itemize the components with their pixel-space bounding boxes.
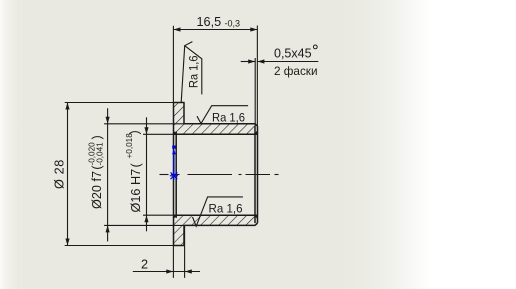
sleeve bottom outer line <box>184 224 255 226</box>
sleeve top outer line <box>184 123 255 125</box>
dimension Ø16 H7 <box>143 117 174 231</box>
arrowhead left of chamfer dim <box>248 59 255 63</box>
bore chamfer edge left <box>175 132 177 218</box>
flange bottom edge <box>173 245 185 247</box>
blue star <box>170 172 178 180</box>
arrowhead top of dim D16 <box>144 127 148 134</box>
arrowhead bottom of dim D20 <box>106 225 110 232</box>
flange right face upper <box>183 103 185 124</box>
svg-text:Ra 1,6: Ra 1,6 <box>186 55 200 88</box>
chamfer edge circle line right <box>254 126 256 223</box>
bore chamfer diagonal right top <box>255 132 258 135</box>
arrowhead right of dim 2 <box>185 269 192 273</box>
arrowhead top of dim D28 <box>65 103 69 110</box>
svg-text:Ra 1,6: Ra 1,6 <box>209 202 243 216</box>
chamfer diagonal bottom right <box>255 223 258 225</box>
dimension 0,5x45 / 2 фаски <box>241 58 319 126</box>
svg-text:-0,3: -0,3 <box>225 19 241 29</box>
dimension Ø28 <box>65 103 174 246</box>
bore bottom line <box>174 214 258 216</box>
background left subtle fade <box>0 0 26 289</box>
arrowhead bottom of dim D16 <box>144 215 148 222</box>
bore top line <box>174 133 258 135</box>
chamfer diagonal top right <box>255 124 258 126</box>
roughness symbol left rotated (Ra 1,6) <box>181 42 202 103</box>
bore chamfer diagonal left top <box>174 132 177 135</box>
bore chamfer diagonal right bottom <box>255 215 258 218</box>
svg-text:0,5x45: 0,5x45 <box>274 47 312 61</box>
svg-text:+0,018: +0,018 <box>125 133 134 159</box>
blue arrowhead <box>172 149 176 155</box>
degree symbol <box>313 45 317 49</box>
hatch lower flange+sleeve wall <box>174 215 258 245</box>
svg-text:2: 2 <box>141 258 148 272</box>
background right white gradient <box>330 0 430 289</box>
roughness symbol top (Ra 1,6) <box>197 106 248 124</box>
flange right face lower <box>183 225 185 245</box>
svg-text:Ø20 f7: Ø20 f7 <box>90 171 104 209</box>
svg-text:Ø 28: Ø 28 <box>53 159 67 189</box>
blue sketch arrow <box>173 151 175 176</box>
bore chamfer diagonal left bottom <box>174 215 177 218</box>
flange left face <box>173 103 175 246</box>
hatch upper flange+sleeve wall <box>174 103 258 135</box>
arrowhead bottom of dim D28 <box>65 239 69 246</box>
arrowhead top of dim D20 <box>106 117 110 124</box>
svg-text:): ) <box>90 135 104 139</box>
svg-text:Ø16 H7: Ø16 H7 <box>129 169 143 213</box>
roughness symbol bottom (Ra 1,6) <box>193 197 243 226</box>
flange top edge <box>173 102 185 104</box>
dimension 2 <box>133 225 200 278</box>
centerline <box>160 174 279 176</box>
end face right <box>257 126 259 223</box>
dimension Ø20 f7 <box>104 108 184 241</box>
arrowhead left of dim 2 <box>166 269 173 273</box>
dimension 16,5 -0,3 <box>173 26 257 127</box>
svg-text:16,5: 16,5 <box>197 15 222 29</box>
blue grip square <box>172 146 176 149</box>
arrowhead right of dim 16,5 <box>250 27 257 31</box>
svg-text:-0,041: -0,041 <box>95 142 104 166</box>
svg-text:2 фаски: 2 фаски <box>274 64 318 78</box>
arrowhead right of chamfer dim <box>257 59 264 63</box>
arrowhead left of dim 16,5 <box>174 27 181 31</box>
svg-text:): ) <box>128 130 142 134</box>
svg-text:Ra 1,6: Ra 1,6 <box>212 110 245 124</box>
